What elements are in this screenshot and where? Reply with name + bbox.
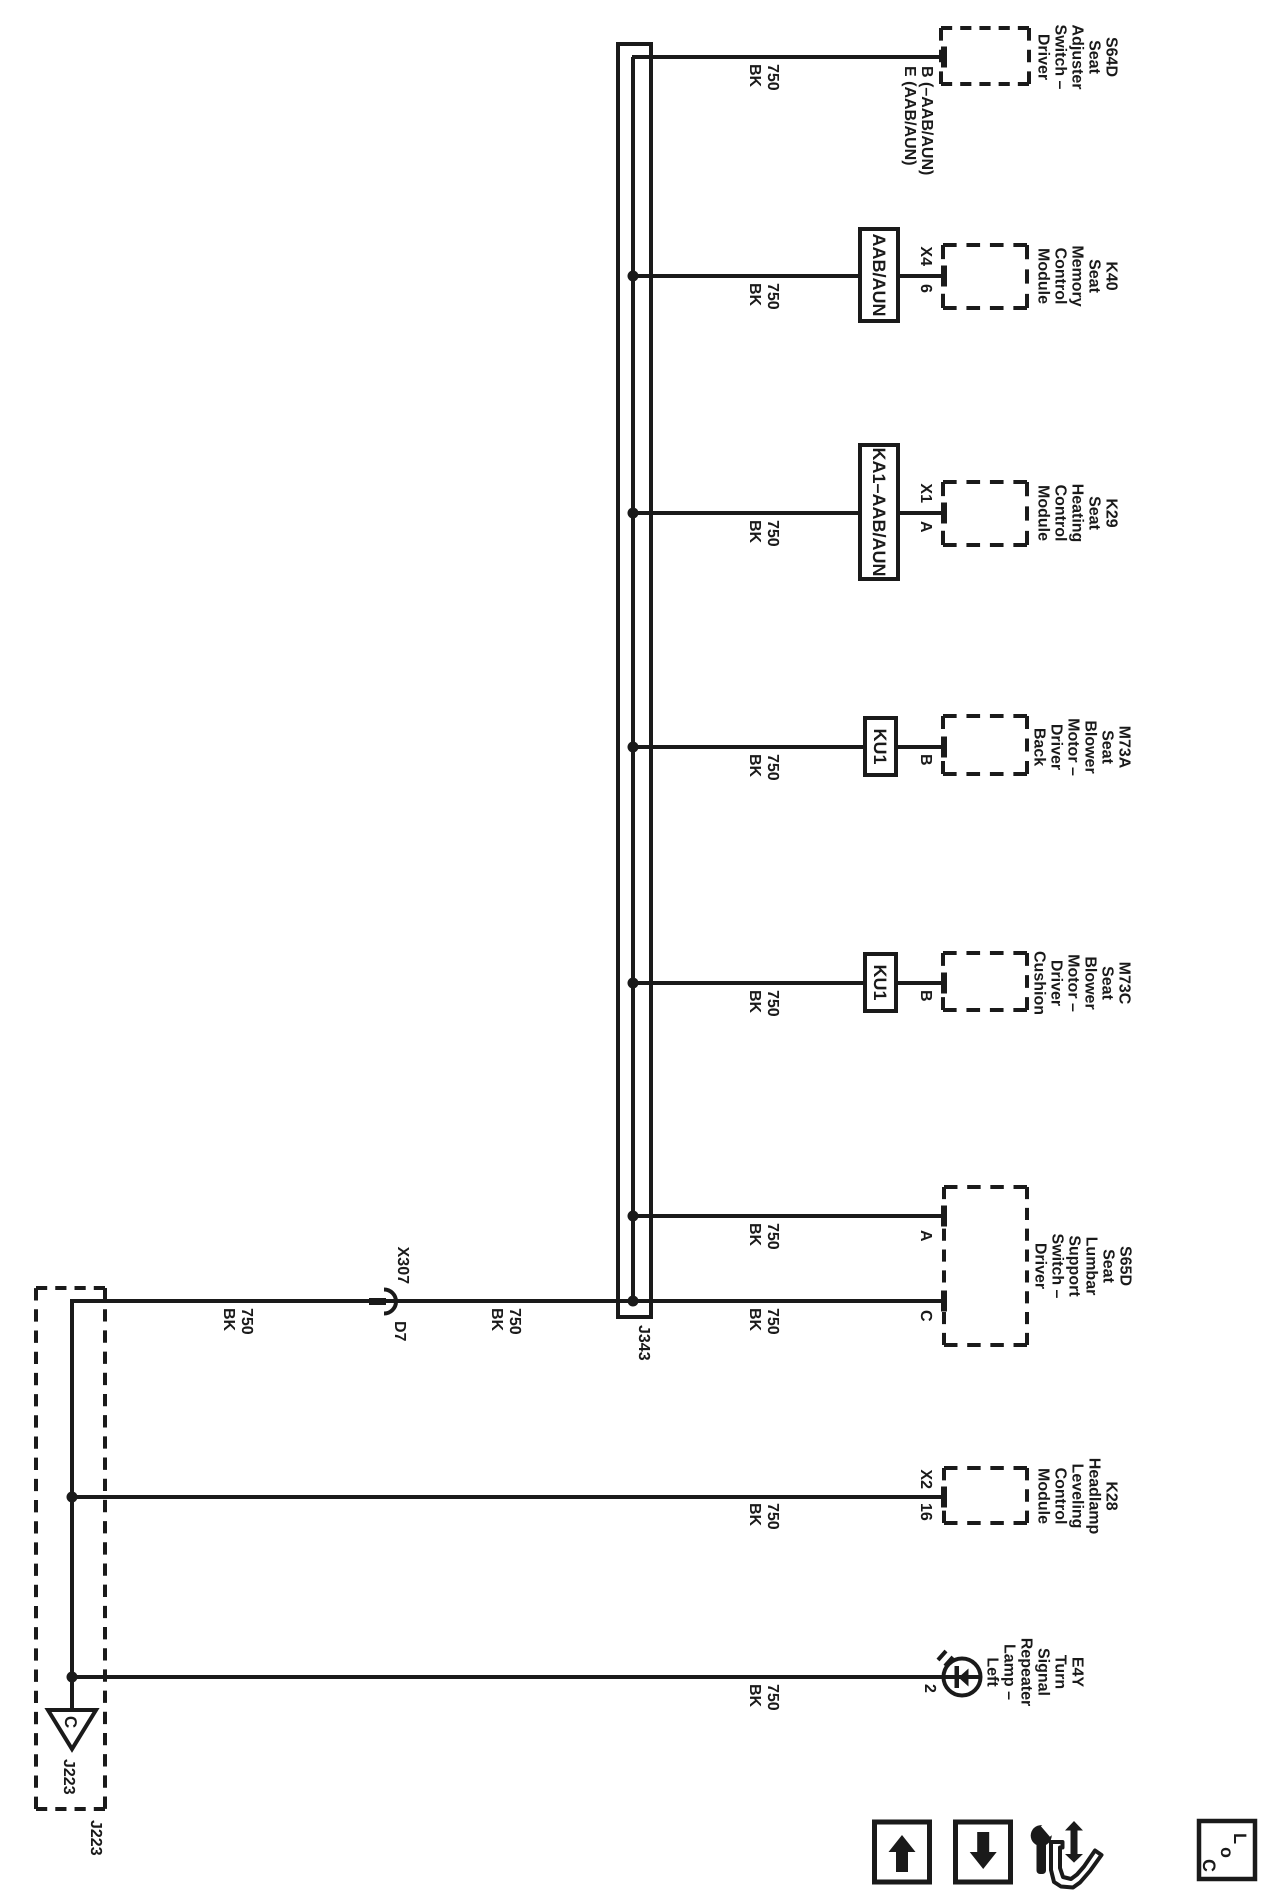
K40 terminal bar bbox=[941, 266, 947, 287]
junction at K28 branch on ground feed bbox=[67, 1492, 78, 1503]
svg-text:Driver: Driver bbox=[1034, 34, 1051, 80]
S65D pin C terminal bar bbox=[941, 1291, 947, 1312]
svg-text:J343: J343 bbox=[635, 1325, 652, 1361]
nav icon: previous page arrow box bbox=[875, 1822, 930, 1882]
svg-text:Control: Control bbox=[1051, 1468, 1068, 1525]
svg-text:Blower: Blower bbox=[1081, 956, 1098, 1009]
junction of feed wire with J343 bus bbox=[628, 1296, 639, 1307]
svg-text:BK: BK bbox=[746, 1503, 763, 1527]
label box AAB/AUN on K40 wire bbox=[860, 229, 898, 321]
svg-text:Seat: Seat bbox=[1085, 40, 1102, 74]
nav icon: next page arrow box bbox=[956, 1822, 1011, 1882]
svg-text:Back: Back bbox=[1030, 728, 1047, 766]
svg-text:Support: Support bbox=[1065, 1235, 1082, 1297]
wire to M73C bbox=[632, 981, 944, 985]
svg-text:BK: BK bbox=[746, 1308, 763, 1332]
svg-text:A: A bbox=[917, 521, 934, 533]
svg-text:K28: K28 bbox=[1102, 1481, 1119, 1510]
svg-text:Turn: Turn bbox=[1051, 1655, 1068, 1689]
svg-text:Motor –: Motor – bbox=[1064, 954, 1081, 1012]
svg-text:K29: K29 bbox=[1102, 498, 1119, 527]
label box KU1 on M73A wire bbox=[865, 718, 896, 775]
svg-text:BK: BK bbox=[746, 754, 763, 778]
svg-text:B (–AAB/AUN): B (–AAB/AUN) bbox=[918, 66, 935, 175]
svg-text:16: 16 bbox=[917, 1503, 934, 1521]
svg-text:750: 750 bbox=[506, 1308, 523, 1335]
junction on J343 bus at x=747 bbox=[628, 742, 639, 753]
svg-text:KU1: KU1 bbox=[870, 964, 890, 1000]
connector X307 plug bar (D7) bbox=[369, 1298, 386, 1305]
svg-text:750: 750 bbox=[764, 1684, 781, 1711]
label box KU1 on M73C wire bbox=[865, 954, 896, 1011]
svg-text:2: 2 bbox=[921, 1684, 938, 1693]
wire to S65D pin A bbox=[632, 1214, 944, 1218]
connector M73A bbox=[1025, 716, 1029, 774]
wire to K40 bbox=[632, 274, 944, 278]
svg-text:A: A bbox=[917, 1230, 934, 1242]
svg-text:Module: Module bbox=[1034, 1468, 1051, 1524]
S64D terminal bar bbox=[941, 47, 947, 68]
svg-text:X4: X4 bbox=[917, 246, 934, 266]
svg-text:D7: D7 bbox=[391, 1321, 408, 1342]
svg-text:Motor –: Motor – bbox=[1064, 718, 1081, 776]
svg-text:Seat: Seat bbox=[1098, 966, 1115, 1000]
svg-text:Switch –: Switch – bbox=[1051, 25, 1068, 90]
wire to K29 bbox=[632, 511, 944, 515]
svg-text:750: 750 bbox=[764, 283, 781, 310]
S65D pin A terminal bar bbox=[941, 1206, 947, 1227]
svg-text:Driver: Driver bbox=[1031, 1243, 1048, 1289]
svg-text:Control: Control bbox=[1051, 485, 1068, 542]
svg-text:750: 750 bbox=[764, 520, 781, 547]
junction at E4Y branch on ground feed bbox=[67, 1672, 78, 1683]
lamp E4Y ray ticks bbox=[938, 1651, 953, 1666]
lamp E4Y diode triangle bbox=[959, 1669, 969, 1687]
svg-text:Memory: Memory bbox=[1068, 245, 1085, 306]
svg-text:BK: BK bbox=[746, 520, 763, 544]
junction on J343 bus at x=983 bbox=[628, 978, 639, 989]
svg-text:AAB/AUN: AAB/AUN bbox=[869, 234, 889, 317]
svg-text:Seat: Seat bbox=[1098, 730, 1115, 764]
svg-text:Signal: Signal bbox=[1034, 1648, 1051, 1696]
svg-text:B: B bbox=[917, 990, 934, 1002]
svg-text:Control: Control bbox=[1051, 248, 1068, 305]
lamp E4Y Turn Signal Repeater - Left (bulb circle) bbox=[944, 1659, 981, 1696]
svg-text:Lamp –: Lamp – bbox=[1000, 1644, 1017, 1700]
K29 terminal bar bbox=[941, 503, 947, 524]
svg-text:S64D: S64D bbox=[1102, 37, 1119, 77]
connector X307 (inline, half-circle socket) bbox=[384, 1290, 396, 1314]
svg-text:BK: BK bbox=[488, 1308, 505, 1332]
svg-text:Seat: Seat bbox=[1099, 1249, 1116, 1283]
svg-text:S65D: S65D bbox=[1116, 1246, 1133, 1286]
svg-text:K40: K40 bbox=[1102, 261, 1119, 290]
connector M73C bbox=[1025, 953, 1029, 1010]
svg-text:J223: J223 bbox=[60, 1759, 77, 1795]
svg-text:C: C bbox=[1199, 1859, 1219, 1872]
svg-text:Module: Module bbox=[1034, 485, 1051, 541]
wire to M73A bbox=[632, 745, 944, 749]
svg-text:BK: BK bbox=[746, 990, 763, 1014]
svg-text:BK: BK bbox=[746, 1223, 763, 1247]
svg-text:BK: BK bbox=[220, 1308, 237, 1332]
svg-text:KU1: KU1 bbox=[870, 728, 890, 764]
svg-text:Module: Module bbox=[1034, 248, 1051, 304]
connector K29 X1 bbox=[1025, 482, 1029, 545]
svg-text:J223: J223 bbox=[87, 1820, 104, 1856]
svg-text:750: 750 bbox=[764, 990, 781, 1017]
wire S65D pin C / ground feed (through X307 to J223) bbox=[72, 1301, 944, 1712]
splice pack J343 (bus outline) bbox=[618, 44, 651, 1317]
connector K28 X2 bbox=[1025, 1468, 1029, 1523]
svg-text:750: 750 bbox=[764, 64, 781, 91]
svg-text:Adjuster: Adjuster bbox=[1068, 25, 1085, 90]
lamp E4Y cathode bar bbox=[955, 1666, 960, 1688]
svg-text:Leveling: Leveling bbox=[1068, 1464, 1085, 1529]
svg-text:Seat: Seat bbox=[1085, 259, 1102, 293]
svg-text:Headlamp: Headlamp bbox=[1085, 1458, 1102, 1535]
K28 terminal bar bbox=[941, 1487, 947, 1508]
connector S64D Seat Adjuster Switch - Driver bbox=[1027, 28, 1031, 84]
wire to K28 bbox=[72, 1495, 944, 1499]
svg-text:750: 750 bbox=[764, 1308, 781, 1335]
svg-text:Repeater: Repeater bbox=[1017, 1638, 1034, 1706]
svg-text:750: 750 bbox=[238, 1308, 255, 1335]
ground distribution J223 (dashed box) bbox=[103, 1288, 107, 1809]
svg-text:o: o bbox=[1217, 1847, 1237, 1858]
label box KA1-AAB/AUN on K29 wire bbox=[860, 445, 898, 579]
svg-text:E4Y: E4Y bbox=[1068, 1657, 1085, 1688]
nav icon: repair/routing (wrench + arrows), drawn in portrait orientation and counter-rotated bbox=[1031, 1821, 1102, 1888]
svg-text:6: 6 bbox=[917, 284, 934, 293]
svg-text:X1: X1 bbox=[917, 483, 934, 503]
connector S65D Lumbar Switch bbox=[1025, 1187, 1029, 1345]
svg-text:Driver: Driver bbox=[1047, 960, 1064, 1006]
svg-text:M73A: M73A bbox=[1115, 726, 1132, 769]
svg-text:C: C bbox=[61, 1716, 80, 1728]
svg-text:BK: BK bbox=[746, 64, 763, 88]
svg-text:Heating: Heating bbox=[1068, 484, 1085, 543]
M73C terminal bar bbox=[941, 973, 947, 994]
connector K40 X4 bbox=[1025, 245, 1029, 308]
svg-text:750: 750 bbox=[764, 754, 781, 781]
wire J343 inner bus line bbox=[631, 57, 635, 1301]
svg-text:Driver: Driver bbox=[1047, 724, 1064, 770]
junction on J343 bus at x=276 bbox=[628, 271, 639, 282]
svg-text:B: B bbox=[917, 754, 934, 766]
svg-text:Left: Left bbox=[983, 1657, 1000, 1687]
svg-text:750: 750 bbox=[764, 1503, 781, 1530]
junction on J343 bus at x=513 bbox=[628, 508, 639, 519]
svg-text:Cushion: Cushion bbox=[1030, 951, 1047, 1015]
wire to E4Y bbox=[72, 1675, 980, 1679]
ground splice triangle C (J223) bbox=[48, 1710, 96, 1749]
svg-text:BK: BK bbox=[746, 1684, 763, 1708]
junction on J343 bus at x=1216 bbox=[628, 1211, 639, 1222]
nav icon: LOC box bbox=[1199, 1821, 1255, 1879]
svg-text:C: C bbox=[917, 1310, 934, 1322]
svg-text:KA1–AAB/AUN: KA1–AAB/AUN bbox=[869, 447, 889, 576]
svg-text:L: L bbox=[1230, 1833, 1250, 1844]
svg-text:Switch –: Switch – bbox=[1048, 1234, 1065, 1299]
svg-text:X2: X2 bbox=[917, 1469, 934, 1489]
svg-text:X307: X307 bbox=[394, 1247, 411, 1284]
svg-text:Seat: Seat bbox=[1085, 496, 1102, 530]
M73A terminal bar bbox=[941, 737, 947, 758]
svg-text:BK: BK bbox=[746, 283, 763, 307]
svg-text:M73C: M73C bbox=[1115, 962, 1132, 1005]
svg-text:750: 750 bbox=[764, 1223, 781, 1250]
svg-text:E (AAB/AUN): E (AAB/AUN) bbox=[901, 66, 918, 166]
svg-text:Blower: Blower bbox=[1081, 720, 1098, 773]
svg-text:Lumbar: Lumbar bbox=[1082, 1237, 1099, 1296]
wire to S64D bbox=[632, 55, 944, 59]
